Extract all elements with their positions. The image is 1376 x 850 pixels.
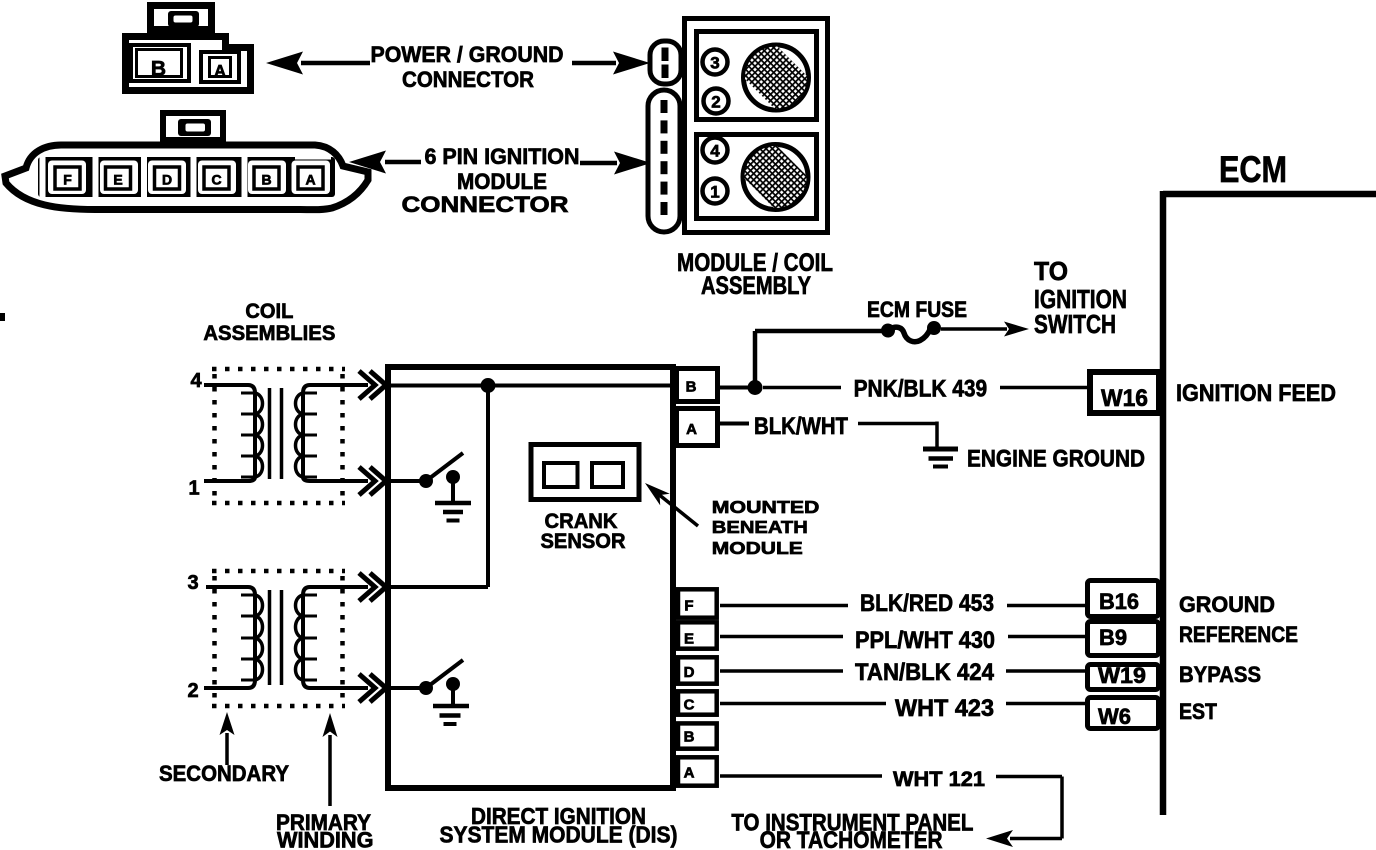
svg-text:ENGINE GROUND: ENGINE GROUND xyxy=(967,446,1145,473)
svg-text:W6: W6 xyxy=(1098,704,1131,729)
pin B cell xyxy=(248,161,286,195)
svg-text:B16: B16 xyxy=(1099,589,1139,614)
wire BLK/WHT xyxy=(720,422,749,426)
svg-text:W16: W16 xyxy=(1101,385,1148,412)
svg-text:E: E xyxy=(113,172,122,188)
svg-text:BLK/RED 453: BLK/RED 453 xyxy=(860,590,994,617)
coil assembly upper dotted box xyxy=(212,369,345,503)
svg-text:2: 2 xyxy=(187,680,198,702)
svg-text:SENSOR: SENSOR xyxy=(541,530,626,553)
arrow to module 6-pin connector xyxy=(580,161,617,166)
svg-text:E: E xyxy=(684,631,694,648)
svg-text:MODULE: MODULE xyxy=(457,169,547,194)
svg-text:ECM: ECM xyxy=(1219,149,1287,190)
svg-text:TO: TO xyxy=(1034,256,1068,286)
pin A cavity outer xyxy=(201,52,239,82)
switch upper pivot xyxy=(419,474,433,488)
wire BLK/RED 453 xyxy=(720,604,848,608)
ECM left boundary line xyxy=(1160,191,1167,815)
power/ground connector tab xyxy=(151,6,212,30)
svg-text:REFERENCE: REFERENCE xyxy=(1179,622,1298,647)
ECM pin W16 xyxy=(1090,372,1159,413)
6-pin connector tab xyxy=(163,113,223,140)
wire TAN/BLK 424 xyxy=(720,669,843,673)
wire WHT 121 xyxy=(720,774,882,778)
DIS pin B (upper) xyxy=(677,369,718,402)
module 6-pin connector pill xyxy=(648,90,680,232)
wire fuse to ignition switch xyxy=(941,327,1007,331)
pin B cavity outer xyxy=(131,45,189,81)
ground ENGINE GROUND xyxy=(923,447,958,452)
fuse ECM FUSE xyxy=(881,324,895,338)
coil assembly lower dotted box xyxy=(212,571,345,706)
pin C cell xyxy=(198,161,236,195)
ECM top boundary line xyxy=(1163,191,1376,198)
switch upper contact xyxy=(446,470,460,484)
switch lower wire xyxy=(390,686,420,690)
svg-text:3: 3 xyxy=(710,54,719,73)
svg-text:WINDING: WINDING xyxy=(277,828,374,850)
chevrons wire 3 xyxy=(359,573,375,601)
svg-text:D: D xyxy=(162,172,172,188)
svg-text:2: 2 xyxy=(711,93,720,112)
power/ground connector tab slot xyxy=(168,11,199,27)
DIS pin B (lower) xyxy=(678,723,717,748)
svg-text:EST: EST xyxy=(1179,699,1217,724)
svg-text:4: 4 xyxy=(190,370,202,392)
stray mark left edge xyxy=(0,313,5,321)
DIS pin C xyxy=(678,691,717,714)
svg-text:SECONDARY: SECONDARY xyxy=(159,761,289,786)
svg-text:IGNITION FEED: IGNITION FEED xyxy=(1176,380,1336,407)
ECM pin W6 xyxy=(1088,698,1159,729)
svg-text:MOUNTED: MOUNTED xyxy=(712,497,820,517)
arrow PRIMARY WINDING xyxy=(328,735,332,806)
upper coil primary winding xyxy=(303,385,368,481)
svg-text:F: F xyxy=(63,172,72,188)
wire WHT 423 xyxy=(720,702,886,706)
svg-text:4: 4 xyxy=(710,142,720,161)
svg-text:B: B xyxy=(261,172,271,188)
chevrons wire 1 xyxy=(359,467,375,495)
pin E cell xyxy=(100,161,138,195)
chevrons wire 4 xyxy=(359,371,386,702)
svg-text:CONNECTOR: CONNECTOR xyxy=(402,192,569,217)
svg-text:A: A xyxy=(214,63,226,80)
6-pin connector hull xyxy=(5,145,368,210)
module/coil assembly outer box xyxy=(685,19,828,233)
svg-text:POWER / GROUND: POWER / GROUND xyxy=(371,42,564,67)
terminal 3 xyxy=(703,50,728,75)
svg-text:C: C xyxy=(211,172,221,188)
svg-text:A: A xyxy=(686,421,697,438)
pin B cavity inner xyxy=(137,50,182,77)
wire junction drop xyxy=(486,386,490,588)
switch upper blade xyxy=(426,453,463,481)
pin F cell xyxy=(48,161,86,195)
arrow to module power/ground connector xyxy=(572,61,616,66)
arrow to crank sensor mounting xyxy=(660,495,698,526)
svg-text:OR TACHOMETER: OR TACHOMETER xyxy=(760,827,943,850)
switch lower pivot xyxy=(419,681,433,695)
arrow SECONDARY xyxy=(225,733,229,765)
wire PNK/BLK 439 xyxy=(720,386,748,390)
svg-text:SWITCH: SWITCH xyxy=(1034,309,1116,339)
svg-text:W19: W19 xyxy=(1098,663,1146,688)
pin A cell xyxy=(292,161,331,195)
DIS pin E xyxy=(678,622,717,648)
svg-text:SYSTEM MODULE (DIS): SYSTEM MODULE (DIS) xyxy=(440,822,678,848)
svg-text:BLK/WHT: BLK/WHT xyxy=(754,413,848,440)
wire row 3 inside DIS xyxy=(390,585,488,589)
svg-text:D: D xyxy=(684,664,695,681)
upper coil secondary winding xyxy=(204,385,255,481)
ground (upper switch) xyxy=(435,501,471,506)
power/ground connector body xyxy=(126,37,251,91)
svg-text:WHT 121: WHT 121 xyxy=(893,768,985,791)
svg-text:B: B xyxy=(686,379,697,396)
svg-text:ASSEMBLY: ASSEMBLY xyxy=(701,272,811,300)
svg-text:PPL/WHT 430: PPL/WHT 430 xyxy=(855,627,995,654)
lower coil primary winding xyxy=(303,587,368,688)
crank sensor box xyxy=(531,445,639,500)
svg-text:ASSEMBLIES: ASSEMBLIES xyxy=(203,322,335,345)
wire to fuse xyxy=(755,329,882,334)
svg-text:B9: B9 xyxy=(1099,625,1127,650)
terminal 1 xyxy=(703,179,728,204)
lower coil core xyxy=(268,590,272,685)
svg-text:6 PIN IGNITION: 6 PIN IGNITION xyxy=(425,144,580,169)
wire ECM fuse riser xyxy=(753,331,758,387)
ECM pin B16 xyxy=(1088,581,1159,617)
module power/ground connector pill xyxy=(650,41,681,84)
switch lower blade xyxy=(426,660,463,688)
coil tower lower xyxy=(743,145,808,210)
ECM pin W19 xyxy=(1088,665,1159,690)
module/coil upper sub-box xyxy=(697,32,817,120)
svg-text:B: B xyxy=(151,58,166,81)
svg-text:1: 1 xyxy=(188,478,199,500)
svg-text:B: B xyxy=(684,729,695,746)
6-pin connector pin band xyxy=(38,157,335,197)
wire top bus inside DIS xyxy=(390,384,674,388)
DIS pin A (lower) xyxy=(678,757,717,785)
svg-text:3: 3 xyxy=(187,572,198,594)
DIS module box xyxy=(388,367,673,788)
DIS pin F xyxy=(678,589,717,617)
module/coil lower sub-box xyxy=(697,135,817,219)
6-pin connector tab slot xyxy=(178,119,211,136)
terminal 4 xyxy=(703,138,728,163)
svg-text:WHT 423: WHT 423 xyxy=(895,695,994,722)
svg-text:TAN/BLK 424: TAN/BLK 424 xyxy=(855,659,995,686)
svg-text:MODULE: MODULE xyxy=(712,538,803,558)
terminal 2 xyxy=(704,89,729,114)
svg-text:ECM FUSE: ECM FUSE xyxy=(867,297,967,322)
lower coil secondary winding xyxy=(204,587,255,688)
switch upper wire xyxy=(390,479,420,483)
svg-text:C: C xyxy=(684,697,695,714)
svg-text:A: A xyxy=(305,172,315,188)
arrow to 6-pin connector drawing xyxy=(385,160,421,165)
svg-text:A: A xyxy=(684,765,695,782)
node junction on top bus xyxy=(481,378,496,393)
svg-text:BYPASS: BYPASS xyxy=(1179,662,1261,687)
svg-text:F: F xyxy=(684,598,693,615)
pin A cavity inner xyxy=(210,58,231,77)
coil tower upper xyxy=(744,45,809,110)
svg-text:COIL: COIL xyxy=(245,300,293,323)
arrow to power/ground connector drawing xyxy=(301,61,370,66)
ground (lower switch) xyxy=(433,704,469,709)
svg-text:BENEATH: BENEATH xyxy=(712,517,808,537)
DIS pin A (upper) xyxy=(677,409,718,446)
ECM pin B9 xyxy=(1088,622,1159,656)
svg-text:1: 1 xyxy=(710,183,719,202)
switch lower contact xyxy=(446,677,460,691)
pin D cell xyxy=(148,161,186,195)
chevrons wire 2 xyxy=(359,674,375,702)
DIS pin D xyxy=(678,657,717,683)
svg-text:GROUND: GROUND xyxy=(1179,592,1275,617)
wire PPL/WHT 430 xyxy=(720,635,843,639)
svg-text:PNK/BLK 439: PNK/BLK 439 xyxy=(854,376,988,403)
svg-text:CONNECTOR: CONNECTOR xyxy=(402,67,534,92)
upper coil core xyxy=(268,388,272,479)
